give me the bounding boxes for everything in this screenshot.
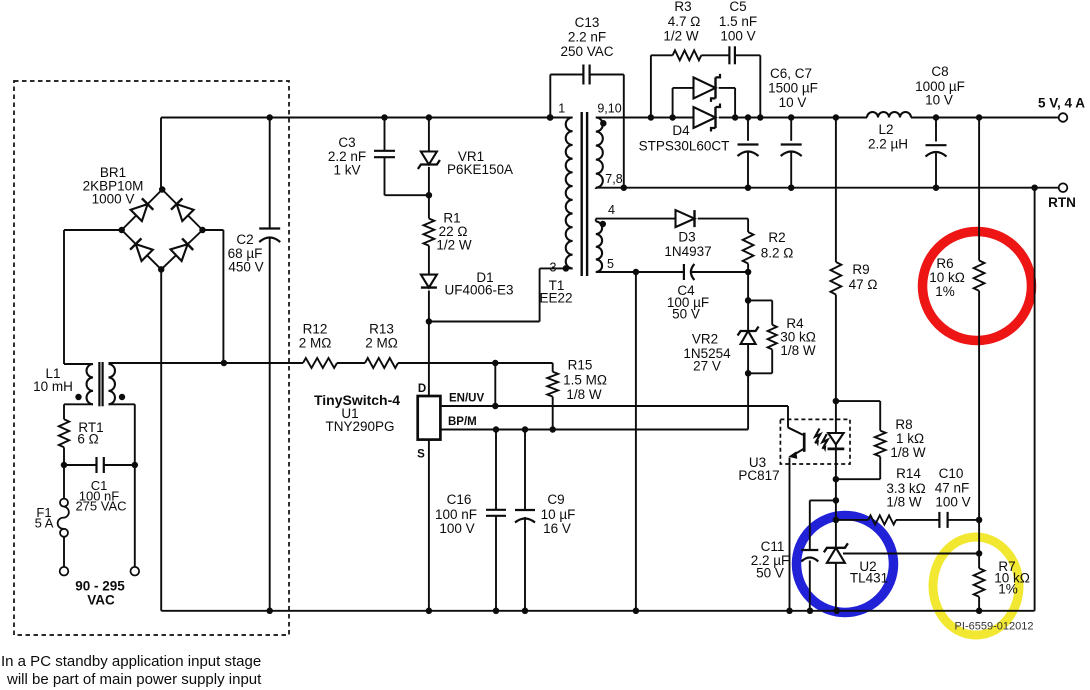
svg-text:R9: R9 (852, 262, 869, 277)
wire: R4 parallel branch (748, 300, 772, 373)
svg-text:10 kΩ: 10 kΩ (929, 270, 965, 285)
wire: VR1-R1-D1 clamp column (426, 114, 433, 321)
svg-text:5 V, 4 A: 5 V, 4 A (1038, 96, 1085, 111)
svg-text:1 kV: 1 kV (333, 163, 360, 178)
wire: TL431 ref line (843, 553, 979, 555)
svg-text:1/8 W: 1/8 W (566, 387, 602, 402)
annotation circle red (around R6) (923, 232, 1032, 341)
resistor R7 (974, 559, 1030, 597)
svg-text:C8: C8 (931, 64, 948, 79)
wire: RTN rail (7,8 return) (596, 184, 1059, 191)
resistor R3 (663, 0, 701, 60)
svg-text:16 V: 16 V (543, 521, 571, 536)
svg-text:C16: C16 (447, 492, 472, 507)
fuse F1 (35, 499, 69, 537)
wire: R6 divider column upper (976, 118, 983, 524)
svg-text:EN/UV: EN/UV (449, 393, 484, 405)
bridge rectifier BR1 (83, 165, 206, 273)
svg-text:3: 3 (550, 261, 557, 275)
svg-text:VAC: VAC (87, 593, 115, 608)
wire: opto transistor emitter to rail (789, 458, 791, 611)
svg-text:50 V: 50 V (756, 566, 784, 581)
wire: C8 column (935, 118, 937, 188)
svg-text:10 µF: 10 µF (541, 507, 576, 522)
svg-text:In a PC standby application in: In a PC standby application input stage (1, 653, 261, 670)
svg-text:EE22: EE22 (539, 291, 572, 306)
svg-text:PC817: PC817 (738, 468, 779, 483)
resistor R4 (768, 316, 816, 358)
svg-text:1/8 W: 1/8 W (780, 343, 816, 358)
svg-text:90 - 295: 90 - 295 (75, 579, 125, 594)
svg-text:D: D (418, 383, 426, 395)
wire: C11 branch (810, 500, 836, 610)
wire: D4 upper diode branch (673, 88, 736, 118)
svg-text:47 Ω: 47 Ω (849, 277, 878, 292)
wire: C1 node line (61, 462, 138, 469)
wire: opto LED column (833, 401, 840, 504)
svg-text:BP/M: BP/M (448, 416, 477, 428)
svg-text:R2: R2 (768, 230, 785, 245)
resistor R12 (299, 322, 337, 369)
wire: HV bus (bridge + to transformer pin 1) (161, 118, 573, 190)
svg-text:R3: R3 (674, 0, 691, 14)
capacitor C5 (719, 0, 757, 64)
capacitor C11 (751, 539, 819, 581)
resistor R13 (365, 322, 398, 369)
svg-text:2.2 µH: 2.2 µH (868, 137, 908, 152)
svg-text:10 V: 10 V (779, 95, 807, 110)
svg-text:C6, C7: C6, C7 (770, 66, 812, 81)
svg-text:2 MΩ: 2 MΩ (365, 336, 398, 351)
input stage dashed boundary box (14, 81, 289, 635)
shunt regulator U2 TL431 (824, 543, 888, 585)
wire: bridge negative return (down to bottom rail) (160, 269, 162, 610)
wire: opto transistor collector from EN/UV (788, 406, 803, 435)
svg-text:1000 V: 1000 V (92, 192, 135, 207)
wire: TL431 cathode/anode leads (833, 500, 840, 610)
svg-text:1500 µF: 1500 µF (768, 81, 818, 96)
wire: EN/UV line (440, 403, 788, 410)
wire: U1 drain column (428, 322, 430, 397)
thermistor RT1 (59, 419, 104, 447)
wire: U1 source column (428, 440, 430, 611)
svg-text:R6: R6 (936, 256, 953, 271)
svg-text:450 V: 450 V (228, 260, 263, 275)
svg-text:100 V: 100 V (720, 29, 755, 44)
svg-text:10 mH: 10 mH (33, 379, 73, 394)
wire: R2 bottom to VR2 node (745, 264, 752, 304)
svg-text:R13: R13 (369, 322, 394, 337)
wire: R15 lower lead crossing EN/UV (552, 397, 554, 430)
wire: VR2 leads (745, 300, 752, 376)
svg-text:L2: L2 (878, 122, 893, 137)
capacitor C6 (738, 145, 759, 157)
wire: bridge right AC lead (203, 230, 224, 363)
svg-text:4.7 Ω: 4.7 Ω (668, 14, 701, 29)
wire: C7 column (790, 118, 792, 188)
svg-text:C9: C9 (547, 492, 564, 507)
wire: R6/R7 mid node and R7 leads (976, 520, 983, 611)
wire: C2 column (266, 114, 273, 611)
svg-text:TNY290PG: TNY290PG (325, 419, 394, 434)
zener VR2 1N5254 (683, 327, 758, 374)
svg-text:VR2: VR2 (692, 332, 718, 347)
svg-text:1.5 nF: 1.5 nF (719, 14, 757, 29)
svg-text:1/2 W: 1/2 W (436, 238, 472, 253)
svg-text:1N4937: 1N4937 (664, 244, 711, 259)
svg-text:C13: C13 (575, 15, 600, 30)
svg-text:R14: R14 (896, 466, 921, 481)
wire: BP/M line (440, 373, 748, 432)
TVS VR1 (418, 149, 513, 177)
svg-text:6 Ω: 6 Ω (77, 432, 98, 447)
wire: bottom return rail (161, 188, 1034, 614)
svg-text:100 nF: 100 nF (435, 507, 477, 522)
output terminal RTN (1048, 183, 1076, 210)
svg-text:1/8 W: 1/8 W (886, 495, 922, 510)
annotation circle yellow (around R7) (933, 537, 1019, 635)
wire: L1 right winding top lead / line sense feed (109, 360, 304, 367)
svg-text:10 V: 10 V (925, 93, 953, 108)
svg-text:P6KE150A: P6KE150A (447, 162, 513, 177)
capacitor C16 (435, 492, 506, 536)
svg-text:C11: C11 (761, 539, 785, 554)
svg-text:4: 4 (608, 203, 615, 217)
wire: R8 branch (833, 401, 881, 482)
svg-text:100 V: 100 V (935, 495, 970, 510)
capacitor C3 (328, 135, 395, 178)
capacitor C4 (667, 264, 709, 322)
svg-text:100 V: 100 V (439, 521, 474, 536)
IC U1 TinySwitch-4 TNY290PG (314, 383, 485, 461)
wire: clamp return elbow to pin 3 (426, 268, 573, 324)
svg-text:will be part of main power sup: will be part of main power supply input (6, 671, 262, 688)
diode D1 (421, 270, 514, 298)
capacitor C13 (560, 15, 613, 85)
wire: secondary pin5 return column (633, 269, 640, 611)
resistor R1 (424, 211, 472, 253)
svg-text:S: S (417, 449, 425, 461)
common-mode choke L1 (33, 362, 125, 406)
capacitor C10 (935, 466, 971, 528)
svg-text:UF4006-E3: UF4006-E3 (444, 283, 513, 298)
annotation circle blue (around U2) (797, 516, 894, 613)
capacitor C8 (915, 64, 965, 157)
svg-text:5 A: 5 A (35, 516, 54, 531)
capacitor C2 (228, 229, 281, 275)
wire: bridge left AC lead (64, 230, 122, 364)
svg-text:47 nF: 47 nF (935, 481, 970, 496)
wire: left AC column RT1-C1-F1 (63, 447, 65, 567)
resistor R8 (875, 417, 926, 460)
svg-text:C10: C10 (939, 466, 964, 481)
svg-text:250 VAC: 250 VAC (560, 44, 613, 59)
resistor R14 (868, 466, 925, 525)
capacitor C7 (768, 66, 818, 156)
resistor R6 (929, 256, 984, 299)
wire: L1 left winding leads (64, 364, 93, 419)
optocoupler U3 PC817 (738, 419, 850, 483)
output terminal 5V 4A (1038, 96, 1085, 122)
svg-text:RTN: RTN (1048, 195, 1076, 210)
svg-text:1%: 1% (935, 284, 955, 299)
svg-text:TL431: TL431 (850, 571, 888, 586)
AC input terminals 90-295 VAC (60, 567, 139, 608)
transformer T1 EE22 (539, 102, 622, 306)
svg-text:1%: 1% (998, 582, 1018, 597)
svg-text:C2: C2 (236, 232, 253, 247)
wire: pin 5 line with C4 (596, 269, 752, 276)
svg-text:27 V: 27 V (693, 359, 721, 374)
svg-text:PI-6559-012012: PI-6559-012012 (955, 621, 1034, 633)
diode D3 (664, 210, 711, 259)
svg-text:R15: R15 (568, 358, 593, 373)
wire: C6 column (747, 118, 749, 188)
resistor R2 (743, 230, 794, 264)
wire: C3 column and elbow to VR1 leg (381, 114, 429, 195)
wire: D3 cathode to R2 (698, 219, 748, 232)
svg-text:7,8: 7,8 (605, 172, 622, 186)
svg-text:1 kΩ: 1 kΩ (896, 431, 924, 446)
svg-text:1/2 W: 1/2 W (663, 29, 699, 44)
capacitor C9 (515, 492, 575, 536)
document number PI-6559 (955, 621, 1034, 633)
inductor L2 (867, 112, 911, 151)
svg-text:50 V: 50 V (672, 307, 700, 322)
svg-text:C5: C5 (729, 0, 746, 14)
svg-text:2 MΩ: 2 MΩ (299, 336, 332, 351)
wire: pin 4 line to D3 (596, 218, 676, 220)
wire: R3/C5 snubber branch (651, 55, 760, 117)
svg-text:1: 1 (558, 102, 565, 116)
svg-text:275 VAC: 275 VAC (75, 499, 126, 514)
resistor R9 (831, 262, 878, 294)
capacitor C1 (75, 457, 126, 514)
resistor R15 (547, 358, 607, 403)
wire: R14/C10 feedback branch (836, 519, 979, 521)
svg-text:5: 5 (607, 257, 614, 271)
caption text (1, 653, 262, 688)
wire: L1 right winding bottom lead to AC terminal (109, 404, 135, 567)
svg-text:R8: R8 (895, 417, 912, 432)
svg-text:1.5 MΩ: 1.5 MΩ (563, 373, 607, 388)
svg-text:D4: D4 (672, 123, 690, 138)
dual schottky D4 STPS30L60CT (639, 74, 730, 154)
wire: secondary output rail 5V (596, 114, 1059, 121)
wire: C13 branch (547, 75, 624, 188)
svg-text:9,10: 9,10 (597, 102, 621, 116)
svg-text:1/8 W: 1/8 W (890, 445, 926, 460)
svg-text:D3: D3 (678, 230, 695, 245)
svg-text:C3: C3 (338, 135, 355, 150)
svg-text:8.2 Ω: 8.2 Ω (761, 246, 794, 261)
wire: line sense segments R12-R13 to EN/UV node (337, 360, 553, 406)
svg-text:2.2 nF: 2.2 nF (568, 30, 606, 45)
svg-text:STPS30L60CT: STPS30L60CT (639, 139, 730, 154)
svg-text:R12: R12 (303, 322, 328, 337)
wire: C16 column (495, 430, 497, 611)
wire: R9 bias column (833, 118, 840, 405)
wire: C9 column (524, 430, 526, 611)
